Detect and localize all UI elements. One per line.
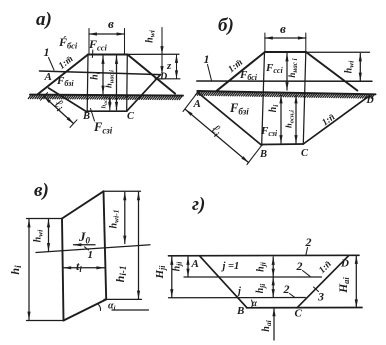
dim h_osn	[295, 96, 297, 144]
svg-text:Fбзi: Fбзi	[56, 75, 74, 88]
dim h_ai bottom	[273, 308, 275, 340]
label D	[159, 72, 167, 83]
top slant edge	[62, 191, 104, 218]
svg-text:Fссi: Fссi	[265, 62, 283, 75]
label h_i	[268, 104, 280, 113]
left vertical edge	[86, 55, 89, 112]
svg-text:D: D	[366, 95, 374, 106]
label Fc3i	[260, 125, 278, 138]
svg-text:2: 2	[296, 259, 303, 273]
label h_wi	[33, 229, 45, 243]
svg-text:A: A	[44, 71, 52, 83]
dim h_wi	[48, 220, 50, 252]
dim line b	[89, 33, 125, 35]
svg-text:hосн,i: hосн,i	[284, 110, 296, 128]
water line A-D	[40, 71, 161, 75]
svg-text:2: 2	[305, 235, 312, 249]
dim line b	[265, 37, 306, 39]
svg-text:а): а)	[36, 9, 52, 30]
label A	[191, 258, 199, 270]
svg-text:Fбзi: Fбзi	[229, 101, 249, 117]
label l_i	[208, 121, 225, 139]
svg-text:A: A	[193, 98, 201, 110]
dim h_wi-1	[124, 192, 126, 243]
J0 arrow	[74, 244, 96, 246]
svg-text:hi: hi	[268, 104, 280, 113]
svg-text:hji: hji	[256, 261, 268, 272]
dim hi	[102, 56, 104, 94]
crest line	[265, 51, 306, 53]
water line	[197, 80, 372, 82]
bottom-right line 2	[112, 309, 149, 311]
svg-text:j =1: j =1	[221, 261, 240, 272]
line C-D	[303, 96, 369, 144]
bottom line B-C	[262, 143, 304, 146]
svg-text:Fсзi: Fсзi	[260, 125, 278, 138]
left edge	[62, 219, 64, 321]
line A-B	[198, 92, 262, 145]
label 1	[88, 249, 94, 261]
tick upper l_i	[183, 92, 198, 111]
svg-text:hi-1: hi-1	[113, 266, 128, 283]
label J0	[78, 229, 91, 246]
top line L1	[169, 254, 360, 257]
svg-text:C: C	[301, 148, 309, 159]
leader of 1	[85, 247, 89, 250]
right vertical edge	[126, 55, 129, 112]
label h_ji left	[172, 261, 184, 272]
label 2 top	[305, 235, 312, 249]
bottom line B-C	[87, 110, 127, 112]
leader 3	[314, 287, 319, 292]
label j=1	[221, 261, 240, 272]
label v)	[34, 180, 49, 201]
label Fb3i	[229, 101, 249, 117]
label Fbci	[239, 69, 258, 82]
embankment crest line	[88, 53, 128, 55]
label Fcci	[88, 37, 108, 53]
right vertical edge	[303, 52, 306, 144]
label A	[44, 71, 52, 83]
dim h_nas	[286, 54, 288, 91]
svg-text:D: D	[159, 72, 167, 83]
bottom-left extension	[27, 320, 64, 322]
svg-text:B: B	[259, 149, 267, 160]
dim h_wi line	[161, 28, 163, 75]
dim l_i line	[44, 97, 74, 124]
svg-text:hwi: hwi	[145, 29, 157, 43]
svg-text:ti: ti	[76, 259, 82, 274]
tick upper l_i	[41, 93, 48, 101]
dim l_i line	[186, 110, 249, 163]
leader 2 mid	[303, 271, 311, 277]
label B	[236, 305, 244, 317]
leader 2 top	[306, 248, 308, 255]
bottom slant edge	[64, 299, 107, 320]
label C	[295, 308, 303, 320]
angle arc at B	[252, 300, 253, 308]
label h_nas	[104, 70, 116, 88]
label h_i-1	[113, 266, 128, 283]
label 2 mid	[296, 259, 303, 273]
label h_ji mid upper	[256, 261, 268, 272]
line L2	[184, 276, 322, 278]
label C	[127, 111, 135, 122]
label b	[280, 21, 286, 36]
tick lower l_i	[247, 145, 262, 164]
svg-text:1:m̄: 1:m̄	[57, 54, 75, 71]
dim h_os	[109, 97, 111, 111]
label 1:m	[227, 58, 245, 75]
svg-text:F́бсi: F́бсi	[58, 35, 78, 51]
right slope C-D	[297, 256, 349, 308]
dim b extension right	[124, 29, 126, 55]
dim h_i	[28, 220, 30, 320]
label g)	[192, 194, 205, 215]
label Fc3i	[93, 120, 113, 136]
svg-text:J0: J0	[78, 229, 91, 246]
label B	[259, 149, 267, 160]
svg-text:B: B	[82, 111, 90, 122]
svg-text:hji: hji	[255, 283, 267, 294]
label Fb3i	[56, 75, 74, 88]
leader of 1	[49, 58, 55, 71]
angle arc	[98, 304, 101, 311]
label l_i	[51, 96, 68, 114]
svg-text:ℓi: ℓi	[208, 121, 225, 139]
dim b extension right	[305, 33, 307, 52]
svg-text:Fсзi: Fсзi	[93, 120, 113, 136]
svg-text:1:n̄: 1:n̄	[321, 112, 338, 128]
label b	[108, 16, 114, 31]
leader Fc3i	[91, 109, 95, 122]
settlement slope to B	[49, 88, 88, 112]
crest extension right	[306, 51, 370, 53]
dim h_i-1	[138, 192, 140, 298]
top-left extension	[27, 218, 63, 220]
label 2 low	[283, 282, 290, 296]
svg-text:1: 1	[88, 249, 94, 261]
label h_wi	[145, 29, 157, 43]
label 1	[204, 52, 210, 66]
dim b extension left	[88, 29, 90, 55]
tick lower l_i	[70, 120, 77, 128]
dim z	[176, 55, 178, 78]
label B	[82, 111, 90, 122]
svg-text:1: 1	[44, 45, 50, 59]
bottom line L4	[247, 307, 363, 309]
label D	[366, 95, 374, 106]
h_wi mid arrow	[161, 40, 163, 54]
label b)	[218, 15, 234, 36]
dim h_nas	[116, 56, 118, 110]
svg-text:Hji: Hji	[154, 265, 167, 280]
right slope	[128, 55, 176, 94]
svg-text:αi: αi	[108, 301, 116, 313]
left slope 1:m	[38, 55, 88, 95]
label H_ji	[154, 265, 167, 280]
svg-text:2: 2	[283, 282, 290, 296]
leader Fcci	[91, 50, 93, 58]
svg-text:C: C	[127, 111, 135, 122]
dim H_ai right	[355, 256, 357, 307]
label A	[193, 98, 201, 110]
crest extension line right	[128, 53, 180, 55]
label C	[301, 148, 309, 159]
svg-text:в: в	[280, 21, 286, 36]
svg-text:hwi: hwi	[33, 229, 45, 243]
label hi	[90, 71, 102, 80]
label h_ai	[261, 319, 273, 331]
svg-text:1: 1	[204, 52, 210, 66]
svg-text:в: в	[108, 16, 114, 31]
label h_i	[8, 265, 23, 275]
svg-text:hi: hi	[8, 265, 23, 275]
label alpha	[252, 298, 258, 308]
dim h_ji mid lower	[272, 278, 274, 298]
label h_nas	[287, 58, 299, 77]
line C-D	[127, 75, 161, 112]
label 1:m	[57, 54, 75, 71]
svg-text:C: C	[295, 308, 303, 320]
svg-text:Fссi: Fссi	[88, 37, 108, 53]
dim h_ji left	[187, 257, 189, 277]
leader 2 low	[290, 294, 295, 298]
svg-text:Fбсi: Fбсi	[239, 69, 258, 82]
right edge	[104, 191, 107, 299]
svg-text:hji: hji	[172, 261, 184, 272]
label j	[236, 286, 241, 297]
ground line	[30, 95, 183, 96]
dim h_wi	[359, 54, 361, 81]
svg-text:z: z	[166, 60, 172, 72]
left slope A-B	[200, 256, 248, 308]
label h_wi-1	[109, 210, 121, 229]
label h_osn	[284, 110, 296, 128]
label 1:n	[321, 112, 338, 128]
dim t_i	[63, 267, 104, 269]
label a)	[36, 9, 52, 30]
water line	[36, 245, 150, 253]
label Fcci	[265, 62, 283, 75]
leader of 1	[208, 65, 212, 81]
angle alpha label	[108, 301, 116, 313]
top-right extension	[104, 190, 141, 192]
svg-text:A: A	[191, 258, 199, 270]
label D	[340, 258, 349, 270]
dim H_ji left	[171, 257, 173, 297]
label h_ji mid lower	[255, 283, 267, 294]
svg-text:hаi: hаi	[261, 319, 273, 331]
line L3	[169, 297, 306, 299]
left vertical edge	[262, 52, 265, 145]
svg-text:B: B	[236, 305, 244, 317]
bottom-right line 1	[104, 298, 142, 300]
dim b extension left	[264, 33, 266, 52]
label t_i	[76, 259, 82, 274]
ground hatching	[28, 95, 182, 99]
label 3	[317, 290, 324, 304]
label 1:n	[317, 259, 333, 275]
label h_wi	[344, 60, 356, 74]
dim h_ji mid upper	[272, 257, 274, 277]
svg-text:D: D	[340, 258, 349, 270]
ground line	[197, 91, 375, 94]
label z	[166, 60, 172, 72]
svg-text:hнас i: hнас i	[287, 58, 299, 77]
right slope 1:n	[306, 52, 357, 91]
left slope 1:m	[217, 52, 265, 91]
dim h_i below	[280, 96, 282, 144]
label Fbci	[58, 35, 78, 51]
svg-text:hwi: hwi	[344, 60, 356, 74]
label H_ai	[338, 277, 351, 294]
ground hatching	[195, 92, 374, 98]
svg-text:г): г)	[192, 194, 205, 215]
label h_os	[101, 96, 110, 108]
svg-text:в): в)	[34, 180, 49, 201]
label 1	[44, 45, 50, 59]
svg-text:Hаi: Hаi	[338, 277, 351, 294]
D baseline	[155, 78, 180, 80]
svg-text:hwi-1: hwi-1	[109, 210, 121, 229]
svg-text:б): б)	[218, 15, 234, 36]
